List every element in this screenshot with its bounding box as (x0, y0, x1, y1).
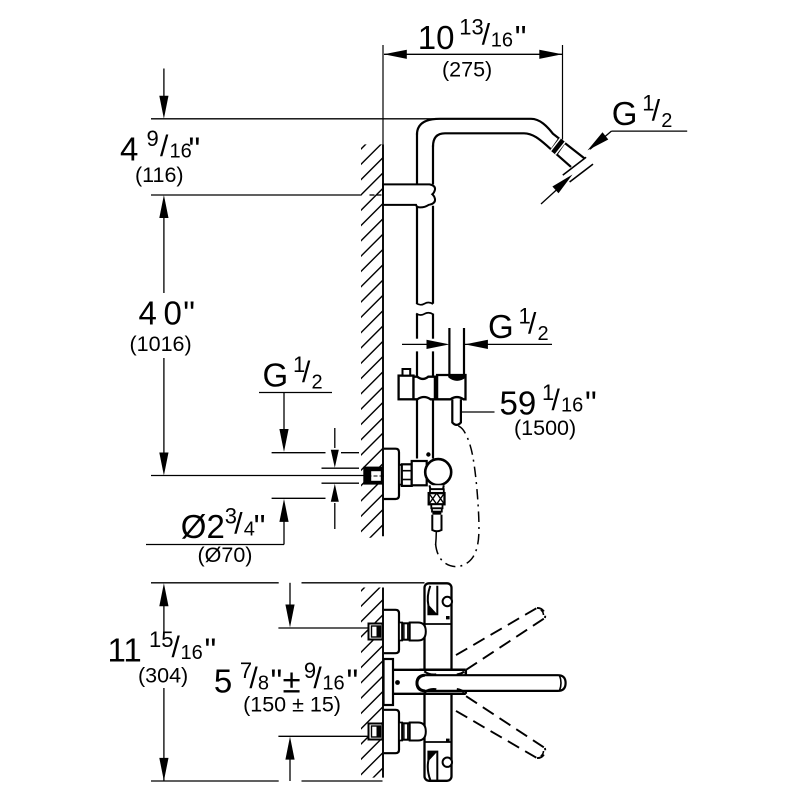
hose outlet tube (432, 515, 441, 531)
arrow up to cold supply center (289, 758, 291, 781)
dim line 10 13/16 (384, 53, 562, 55)
ext line hot supply center (278, 627, 368, 629)
arrow up to bracket center (159, 195, 168, 218)
arrow right of top dim (539, 50, 562, 59)
svg-text:(Ø70): (Ø70) (198, 543, 253, 567)
svg-text:Ø2: Ø2 (181, 508, 225, 545)
wall bracket (pipe holder) (383, 184, 435, 207)
ext line stub bottom (322, 482, 360, 484)
svg-text:(150 ± 15): (150 ± 15) (243, 693, 341, 717)
supply escutcheon (384, 710, 399, 753)
svg-text:15: 15 (149, 627, 173, 652)
bottom handle section (428, 752, 437, 780)
dim extension line left (wall plane) (382, 45, 384, 144)
hose outlet dark band (432, 511, 441, 515)
svg-text:10: 10 (418, 19, 455, 56)
svg-text:(1016): (1016) (130, 332, 192, 356)
svg-text:2: 2 (661, 110, 672, 132)
small arrow down to stub top (334, 428, 336, 448)
ext line mixer body bottom (151, 780, 279, 782)
mixer body (425, 583, 452, 781)
shower head end cut line (563, 157, 586, 175)
wall escutcheon mid (diam 70) (384, 449, 399, 499)
riser stop dot (426, 452, 430, 456)
riser break wavy lines (416, 303, 433, 305)
riser pipe right edge (432, 146, 434, 185)
hand shower handle right edge (463, 328, 465, 374)
svg-text:/: / (302, 356, 311, 389)
supply union nut (399, 723, 402, 741)
leader underline + left arrow (465, 343, 552, 345)
shower head thread band (hatched) (550, 138, 566, 156)
hand shower handle left edge (448, 328, 450, 374)
spout left cap (thick) (417, 675, 425, 691)
leader underline diam (146, 544, 284, 546)
ext line stub top (322, 467, 360, 469)
dim line 40 inch upper segment (163, 216, 165, 293)
svg-text:(1500): (1500) (514, 416, 576, 440)
svg-text:G: G (612, 95, 638, 132)
svg-text:": " (515, 19, 527, 56)
svg-text:16: 16 (181, 642, 203, 664)
arrow left of top dim (384, 50, 407, 59)
supply stub in wall (369, 624, 383, 640)
svg-text:": " (189, 131, 201, 168)
ext line cold supply center (278, 735, 368, 737)
svg-text:5: 5 (214, 662, 232, 699)
supply boss into body (410, 723, 426, 741)
holder knob tab (403, 369, 411, 376)
svg-text:16: 16 (561, 395, 583, 417)
cartridge mark top (446, 616, 450, 619)
svg-text:": " (585, 384, 597, 421)
cartridge mark bottom (446, 739, 450, 742)
hose connector below handle (452, 399, 461, 425)
leader underline G1/2 left (259, 392, 332, 394)
dim line 40 inch lower segment (163, 358, 165, 458)
outlet channel bottom line (393, 693, 420, 695)
supply boss into body (410, 623, 426, 641)
svg-text:11: 11 (108, 632, 142, 669)
svg-text:2: 2 (312, 372, 323, 394)
svg-text:9: 9 (147, 126, 159, 151)
hose nut with cross hatch (429, 493, 445, 504)
svg-text:4: 4 (120, 131, 138, 168)
ext line union bottom (272, 497, 326, 499)
svg-text:4: 4 (139, 295, 157, 332)
svg-text:(116): (116) (135, 163, 184, 187)
leader rise to union bottom (283, 521, 285, 545)
svg-text:": " (183, 295, 195, 332)
right pointing arrow at hand shower (402, 343, 430, 345)
wall face line upper (382, 144, 384, 536)
top screw circle (443, 597, 452, 606)
svg-text:8: 8 (258, 673, 269, 695)
shower head end second line (570, 164, 593, 182)
svg-text:/: / (172, 631, 181, 664)
supply stub in wall (369, 724, 383, 740)
supply escutcheon (384, 610, 399, 653)
spout end face arc (560, 676, 562, 691)
ref line at wall bracket center (with dashes through wall) (151, 194, 362, 196)
hand shower spray face (dark crescent) (448, 375, 466, 381)
svg-text:(275): (275) (442, 58, 492, 82)
top handle section (428, 586, 437, 614)
diverter body block (412, 461, 427, 485)
hose outlet stem (431, 504, 442, 508)
dashed spout lower position (466, 696, 545, 748)
bath spout (solid position) (417, 675, 566, 691)
leader line to hose connector (461, 411, 495, 413)
body divider line bottom (425, 741, 452, 743)
svg-text:16: 16 (491, 29, 513, 51)
holder right arm (437, 375, 465, 399)
dim line 11 15/16 lower segment (163, 688, 165, 781)
arrow down to supply center (289, 583, 291, 608)
svg-text:/: / (160, 130, 169, 163)
ref line at shower arm top (151, 118, 437, 120)
ext line union top (272, 452, 326, 454)
dashed spout upper position (466, 618, 545, 670)
dim extension line right (shower head center) (562, 45, 564, 140)
svg-text:/: / (482, 19, 491, 52)
holder middle clamp (414, 377, 435, 400)
leader drop to union top (283, 393, 285, 436)
outlet dot (395, 680, 400, 685)
svg-text:/: / (552, 384, 561, 417)
wall face line lower (382, 588, 384, 778)
svg-text:/: / (652, 95, 661, 128)
ext line mixer body top (151, 582, 279, 584)
small arrow up to stub bottom (334, 503, 336, 529)
lower arrow to head thread (541, 189, 558, 205)
svg-text:G: G (263, 357, 289, 394)
svg-text:0: 0 (164, 295, 182, 332)
center line dash-dot through union (364, 475, 384, 477)
svg-text:/: / (234, 508, 243, 541)
supply union nut (399, 623, 402, 641)
svg-text:/: / (313, 662, 322, 695)
wall hatch pattern lower strip (360, 567, 385, 800)
shower hose (dash-dot loop) (436, 426, 479, 567)
leader underline top G1/2 (611, 130, 687, 132)
spout outlet block at wall (384, 659, 394, 705)
spout pivot collar (420, 670, 466, 694)
bottom screw circle (443, 758, 452, 767)
outlet channel top line (393, 669, 420, 671)
union black body through wall (363, 467, 382, 485)
collar shoulder arcs (424, 671, 436, 674)
svg-text:2: 2 (538, 323, 549, 345)
dim line 11 15/16 upper segment (163, 604, 165, 634)
svg-text:": " (254, 508, 266, 545)
riser pipe left edge (416, 134, 418, 185)
svg-text:": " (347, 662, 359, 699)
diverter ball (425, 459, 451, 485)
arrow down to arm top (163, 69, 165, 98)
shower arm outer edge (417, 119, 585, 159)
shower holder left knob (399, 376, 414, 400)
svg-text:/: / (528, 308, 537, 341)
svg-text:(304): (304) (138, 663, 188, 687)
diverter lower neck (429, 485, 443, 489)
diverter connection nut (399, 465, 402, 485)
svg-text:16: 16 (322, 673, 344, 695)
leader diagonal to head thread (590, 131, 611, 149)
arrow down to mixer center line (159, 453, 168, 476)
svg-text:G: G (488, 308, 514, 345)
body divider line top (425, 623, 452, 625)
hose first solid segment (435, 532, 438, 546)
shower arm inner edge (433, 133, 571, 167)
ref line mixer center (151, 475, 364, 477)
svg-text:13: 13 (459, 15, 483, 40)
